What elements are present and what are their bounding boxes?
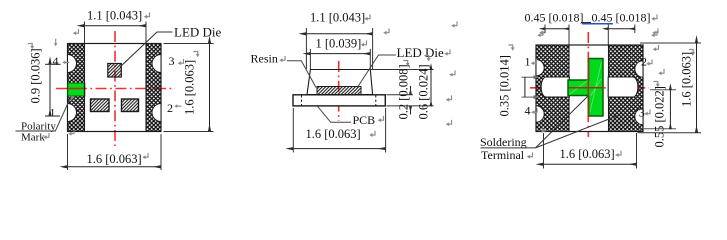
- extension line bottom for right 1.6 (view1): [164, 131, 214, 133]
- formatting arrow after pin4 (view1): [62, 61, 69, 65]
- formatting mark above right 1.6 text (view3): [689, 50, 695, 56]
- leader line Resin (view2): [287, 61, 316, 88]
- svg-text:2: 2: [167, 101, 173, 115]
- terminal inner edge left (view3): [568, 46, 570, 132]
- formatting mark after pin2 (view3): [646, 59, 652, 65]
- green polarity mark (view1): [68, 83, 85, 96]
- dimension 0.35 lower arrowhead (view3): [534, 95, 540, 99]
- LED die strip (view2): [317, 87, 361, 95]
- slot gap left terminal (view3): [541, 77, 569, 97]
- castellation notch pin4 (view3): [536, 106, 544, 122]
- castellation notch pin1 (view1): [68, 104, 77, 122]
- extension line inner edge right (view3): [607, 25, 609, 45]
- formatting mark after pin3 (view1): [178, 59, 184, 65]
- svg-text:0.45 [0.018]: 0.45 [0.018]: [525, 11, 584, 25]
- formatting mark after bottom 1.6 (view1): [142, 153, 148, 159]
- svg-text:1.6 [0.063]: 1.6 [0.063]: [680, 52, 694, 107]
- dimension line 0.9 left (view1): [49, 64, 51, 116]
- leader line LED Die (view1): [120, 32, 173, 67]
- svg-text:0.55 [0.022]: 0.55 [0.022]: [653, 86, 667, 147]
- formatting mark after PCB (view2): [378, 116, 384, 122]
- formatting mark above right 1.6 text (view1): [193, 52, 199, 58]
- stray formatting mark between views lower (view3): [446, 120, 452, 126]
- terminal inner edge right (view3): [608, 46, 610, 132]
- formatting mark left of 0.45 dim (view3): [539, 28, 545, 34]
- extension line 0.35 top (view3): [522, 76, 537, 78]
- terminal hatch right (view3): [609, 46, 643, 131]
- dimension line 1.1 (view2): [306, 33, 372, 35]
- extension line 1.1 right (view2): [372, 28, 374, 69]
- extension line bottom-right (view3): [636, 133, 638, 169]
- small down arrow above 0.9 dim (view1): [54, 39, 58, 47]
- svg-text:PCB: PCB: [353, 113, 376, 127]
- svg-text:1.1 [0.043]: 1.1 [0.043]: [87, 9, 142, 23]
- svg-text:Terminal: Terminal: [481, 148, 525, 162]
- dimension line 1 (view2): [310, 53, 370, 55]
- dimension line 1.6 bottom (view1): [68, 166, 162, 168]
- svg-text:3: 3: [639, 106, 645, 120]
- svg-text:Mark: Mark: [21, 132, 45, 144]
- leader line LED Die (view2): [357, 55, 396, 88]
- terminal inner edge left (view1): [84, 44, 86, 131]
- extension line right 1.6 bottom (view3): [638, 132, 702, 134]
- formatting mark above 0.9 text (view1): [28, 44, 34, 50]
- centerline vertical (view1): [114, 31, 116, 146]
- package outline (view3): [536, 45, 643, 132]
- underline of Soldering (view3): [481, 147, 536, 149]
- svg-text:1.1 [0.043]: 1.1 [0.043]: [310, 11, 365, 25]
- svg-text:0.35 [0.014]: 0.35 [0.014]: [498, 55, 512, 116]
- slot gap right terminal (view3): [608, 77, 638, 97]
- extension line bottom-left (view3): [543, 133, 545, 169]
- formatting mark above 0.2 text (view2): [403, 61, 409, 67]
- dimension 0.2 upper arrow (view2): [410, 86, 412, 94]
- formatting arrow after pin2 (view1): [174, 104, 181, 108]
- extension line PCB bottom right (view2): [387, 105, 434, 107]
- dimension line 1.6 bottom (view2): [293, 148, 385, 150]
- svg-text:LED Die: LED Die: [174, 25, 222, 40]
- dimension line 1.6 right (view3): [696, 43, 698, 133]
- extension line 1.1 left (view2): [305, 28, 307, 69]
- castellation notch pin4 (view1): [68, 55, 77, 73]
- svg-text:1.6 [0.063]: 1.6 [0.063]: [183, 60, 197, 115]
- castellation notch pin2 (view1): [152, 104, 161, 122]
- bond pad left (view1): [91, 99, 110, 112]
- extension line bottom-right (view1): [160, 134, 162, 170]
- dimension line 1.6 bottom (view3): [544, 163, 637, 165]
- svg-text:LED Die: LED Die: [397, 45, 445, 60]
- svg-text:4: 4: [525, 104, 531, 118]
- extension line 0.35 bottom (view3): [522, 96, 537, 98]
- leader line PCB (view2): [318, 106, 352, 122]
- formatting mark below package left (view1): [68, 129, 74, 135]
- formatting mark after Resin (view2): [279, 56, 285, 62]
- terminal inner edge right (view1): [145, 44, 147, 131]
- leader to right lower pad (view3): [536, 116, 619, 148]
- terminal hatch left (view1): [68, 44, 85, 131]
- formatting mark after Mark (view1): [43, 133, 49, 139]
- svg-text:1.6 [0.063]: 1.6 [0.063]: [560, 147, 615, 161]
- formatting mark after right 0.45 (view3): [651, 14, 657, 20]
- svg-text:3: 3: [169, 54, 175, 68]
- extension line PCB top right (view2): [387, 94, 414, 96]
- dimension line 0.6 (view2): [430, 70, 432, 106]
- resin trapezoid (view2): [307, 70, 373, 95]
- PCB terminal boundary left dashed (view2): [301, 95, 303, 106]
- centerline horizontal (view1): [56, 88, 175, 90]
- centerline over green horizontal (view3): [569, 87, 604, 89]
- extension line 0.55 top (view3): [650, 89, 676, 91]
- leader to green arm corner (view3): [536, 96, 589, 148]
- dimension line 0.45 right (view3): [608, 28, 635, 30]
- extension line inner edge left (view3): [568, 25, 570, 45]
- svg-text:0.2 [0.008]: 0.2 [0.008]: [397, 64, 411, 119]
- grey arrow mark near bottom ext (view3): [541, 128, 547, 133]
- svg-text:0.9 [0.036]: 0.9 [0.036]: [29, 48, 43, 103]
- stray formatting mark mid right (view3): [658, 69, 664, 75]
- terminal hatch left (view3): [537, 46, 570, 131]
- PCB body (view2): [293, 95, 385, 106]
- castellation notch pin2 (view3): [635, 61, 643, 77]
- extension tick slot end left (view3): [544, 25, 546, 34]
- centerline over green vertical (view3): [587, 59, 589, 116]
- formatting mark after 1.1 (view1): [144, 12, 150, 18]
- black underline between dims (view3): [581, 22, 591, 24]
- dimension 0.2 lower arrow (view2): [410, 106, 412, 114]
- castellation notch pin3 (view3): [635, 108, 643, 124]
- formatting mark after 1.1 (view2): [364, 14, 370, 20]
- extension line bottom right shared (view3): [638, 128, 677, 130]
- castellation notch pin1 (view3): [536, 60, 544, 76]
- stray formatting mark column 3 (view2): [449, 70, 455, 76]
- light streaks on green (view3): [570, 62, 602, 112]
- formatting mark after bottom 1.6 (view3): [615, 151, 621, 157]
- formatting mark above 0.35 text (view3): [508, 45, 514, 51]
- stray formatting mark below right ext (view3): [653, 45, 659, 51]
- svg-text:1: 1: [525, 55, 531, 69]
- extension line 1 right (view2): [369, 49, 371, 69]
- extension line right 1.1 (view1): [145, 22, 147, 44]
- package body outline (view1): [68, 44, 162, 132]
- castellation notch pin3 (view1): [152, 55, 161, 73]
- formatting mark above 0.6 text (view2): [424, 56, 430, 62]
- dimension line 1.6 right (view1): [209, 44, 211, 132]
- svg-text:1.6 [0.063]: 1.6 [0.063]: [306, 127, 361, 141]
- svg-text:2: 2: [641, 55, 647, 69]
- leader line Polarity Mark (view1): [56, 96, 72, 131]
- extension line 1 left (view2): [309, 49, 311, 69]
- svg-text:4: 4: [53, 54, 59, 68]
- formatting mark after pin1 (view3): [531, 59, 537, 65]
- blue underline under second 0.45 (view3): [582, 23, 613, 25]
- svg-text:Resin: Resin: [251, 52, 278, 66]
- svg-text:1 [0.039]: 1 [0.039]: [316, 37, 362, 51]
- dimension 0.35 connector (view3): [524, 77, 526, 97]
- leader underline pin4 (view1): [45, 63, 61, 65]
- extension line top for right 1.6 (view1): [164, 43, 214, 45]
- PCB terminal boundary right dashed (view2): [375, 95, 377, 106]
- leader arrowhead polarity (view1): [70, 96, 74, 102]
- extension line bottom-right (view2): [385, 108, 387, 153]
- dimension 0.35 upper arrowhead (view3): [534, 75, 540, 79]
- dimension line 1.1 top (view1): [85, 25, 147, 27]
- extension line left 1.1 (view1): [84, 22, 86, 44]
- formatting mark below-left of 1.1 dim (view1): [73, 29, 79, 35]
- svg-text:0.6 [0.024]: 0.6 [0.024]: [417, 64, 431, 119]
- bond pad right (view1): [122, 99, 139, 112]
- stray formatting mark between views upper (view3): [446, 95, 452, 101]
- dimension line 0.55 (view3): [669, 90, 671, 129]
- dimension line 0.45 left (view3): [545, 28, 569, 30]
- formatting mark after pin4 (view3): [531, 108, 537, 114]
- formatting mark after pin3 (view3): [644, 109, 650, 115]
- svg-text:Soldering: Soldering: [480, 135, 527, 149]
- extension tick slot end right (view3): [634, 25, 636, 34]
- stray formatting mark left of view3 (view3): [451, 21, 457, 27]
- stray formatting mark right of 1.1 dim (view2): [383, 28, 389, 34]
- stray formatting mark upper right (view3): [651, 31, 657, 37]
- stray formatting mark column 2 (view2): [444, 49, 450, 55]
- formatting mark after bottom 1.6 (view2): [369, 131, 375, 137]
- terminal hatch right (view1): [146, 44, 161, 131]
- LED die square (view1): [108, 64, 122, 78]
- extension line right 1.6 top (view3): [640, 42, 701, 44]
- leader underline pin1 (view1): [45, 115, 60, 117]
- extension line resin top right (view2): [371, 69, 434, 71]
- formatting mark after Terminal (view3): [527, 152, 533, 158]
- svg-text:0.45 [0.018]: 0.45 [0.018]: [592, 11, 651, 25]
- formatting mark after 1 (view2): [361, 40, 367, 46]
- centerline vertical (view2): [338, 61, 340, 121]
- formatting mark right of 0.45 dim (view3): [652, 28, 658, 34]
- extension line bottom-left (view1): [67, 134, 69, 170]
- svg-text:1.6 [0.063]: 1.6 [0.063]: [87, 152, 142, 166]
- extension line bottom-left (view2): [292, 108, 294, 153]
- formatting mark top-left of package (view3): [537, 31, 543, 37]
- underline of Polarity label (view1): [16, 130, 56, 132]
- centerline vertical (view3): [587, 32, 589, 137]
- centerline horizontal (view3): [530, 87, 649, 89]
- formatting mark above 0.55 text (view3): [653, 82, 659, 88]
- centerline over green (view1): [68, 88, 85, 90]
- green soldering terminal cross (view3): [568, 59, 603, 117]
